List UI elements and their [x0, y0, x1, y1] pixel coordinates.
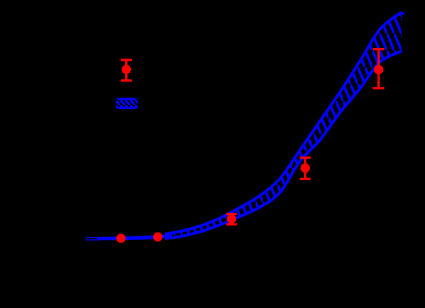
- thin band lead-in lower line: [86, 239, 99, 241]
- legend band box hatch: [114, 96, 140, 111]
- legend band box bottom border: [118, 107, 135, 109]
- band left solid segment (edges merged where band is very thin): [97, 234, 172, 240]
- theory band hatch fill: [90, 0, 410, 250]
- band top edge: [165, 12, 402, 234]
- error bar point 5: [373, 49, 384, 88]
- band tip fragment at clipped end: [402, 12, 404, 14]
- data point 3: [227, 214, 236, 223]
- data point 4: [301, 163, 310, 172]
- data point 1: [116, 234, 125, 243]
- legend data marker: [122, 65, 131, 74]
- band bottom edge: [165, 51, 402, 239]
- legend data marker error bar: [121, 60, 132, 81]
- error bar point 4: [300, 158, 311, 179]
- thin band lead-in upper line: [86, 237, 99, 239]
- data point 2: [153, 232, 162, 241]
- legend band box top border: [118, 98, 135, 100]
- data point 5: [374, 65, 383, 74]
- error bar point 3: [226, 214, 237, 224]
